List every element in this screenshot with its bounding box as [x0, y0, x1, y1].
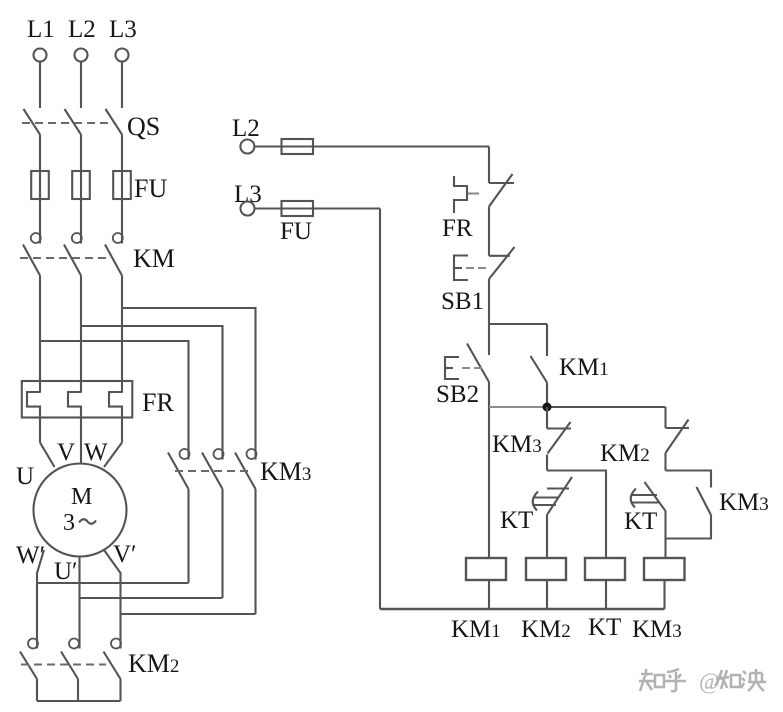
contact FR actuator — [454, 176, 467, 213]
wire QS to FU pole 3 — [121, 135, 123, 244]
svg-text:L2: L2 — [68, 16, 96, 43]
contactor KM2 main pole2 circle — [69, 639, 79, 649]
contactor KM pole 1 circle — [31, 233, 41, 243]
coil KT — [585, 558, 625, 580]
wire V' to KM3 pole3 — [121, 613, 256, 615]
terminal L3 control — [241, 202, 255, 216]
svg-text:KM2: KM2 — [128, 649, 179, 678]
wire branch to KM1 contact — [489, 323, 547, 325]
thermal relay FR heater element 1 — [27, 392, 40, 443]
coil KM2 — [526, 558, 566, 580]
wire KT2 to KM3 coil — [664, 511, 666, 558]
wire KM2 coil bottom — [546, 580, 548, 609]
contactor KM3 main pole1 blade — [168, 453, 189, 490]
switch QS linkage dashed line — [22, 122, 110, 124]
svg-text:L1: L1 — [27, 16, 55, 43]
wire KM3 pole3 down — [254, 489, 256, 614]
wire KT coil bottom — [605, 580, 607, 609]
contact KM3 NC blade — [548, 422, 571, 454]
terminal L3 — [116, 49, 129, 62]
svg-text:V′: V′ — [113, 541, 137, 568]
coil KM1 — [466, 558, 506, 580]
wire junction to KM3 parallel branch — [666, 471, 712, 488]
contact KT2 delayed blade — [645, 482, 666, 511]
wire KM1 coil bottom — [488, 580, 490, 609]
fuse FU control L3 — [282, 201, 314, 216]
contactor KM pole 2 blade — [64, 245, 81, 276]
svg-text:KT: KT — [500, 507, 533, 534]
contact KT delay symbol — [533, 492, 559, 511]
button SB2 actuator — [445, 357, 459, 379]
svg-text:KM3: KM3 — [719, 489, 769, 516]
contactor KM2 main pole3 circle — [111, 639, 121, 649]
svg-text:KM2: KM2 — [521, 616, 571, 643]
contactor KM pole 2 circle — [72, 233, 82, 243]
button SB2 actuator link dashes — [462, 367, 482, 369]
wire FR to SB1 — [488, 207, 490, 256]
svg-text:KM1: KM1 — [451, 616, 501, 643]
contactor KM pole 3 circle — [113, 233, 123, 243]
button SB1 actuator link dashes — [466, 267, 486, 269]
wire L2 down to QS — [80, 62, 82, 108]
contactor KM3 main pole2 circle — [214, 449, 224, 459]
svg-text:FR: FR — [142, 388, 174, 417]
contact KT2 delay symbol — [631, 489, 659, 508]
contactor KM3 main pole3 blade — [235, 453, 256, 490]
contactor KM3 main pole3 circle — [247, 449, 257, 459]
terminal L2 — [75, 49, 88, 62]
svg-text:KM1: KM1 — [559, 354, 609, 381]
contact KM2 NC stub — [664, 407, 666, 428]
wire KM pole2 down — [80, 276, 82, 393]
button SB2 stub top — [488, 324, 490, 355]
wire KM pole1 down — [39, 276, 41, 393]
wire KM3 coil bottom — [663, 580, 665, 609]
contact KT delayed NC tick — [547, 487, 569, 489]
svg-text:KT: KT — [624, 508, 657, 535]
svg-text:U′: U′ — [54, 558, 78, 585]
svg-text:L3: L3 — [109, 16, 137, 43]
wire KT contact to KM2 coil — [546, 514, 548, 558]
wire KM3 pole2 down — [221, 489, 223, 598]
svg-text:KT: KT — [588, 614, 621, 641]
contact KT delayed NC blade — [548, 477, 573, 514]
wire QS to FU pole 1 — [39, 135, 41, 244]
svg-text:L2: L2 — [232, 115, 260, 142]
wire KM pole3 down — [121, 276, 123, 393]
contact FR NC tick — [489, 182, 514, 184]
wire U lead-in flare — [40, 443, 55, 468]
contactor KM2 main linkage dashed line — [21, 663, 106, 665]
contactor KM linkage dashed line — [20, 257, 107, 259]
svg-text:KM3: KM3 — [632, 616, 682, 643]
wire L3 down to QS — [121, 62, 123, 108]
contact KM3 NC tick — [547, 427, 571, 429]
contactor KM3 main pole2 blade — [202, 453, 223, 490]
svg-text:W: W — [84, 439, 108, 466]
watermark zhihu — [639, 669, 766, 694]
wire branch phase1 to KM3 pole1 — [40, 341, 189, 460]
fuse FU pole 1 — [31, 171, 49, 199]
svg-text:KM3: KM3 — [260, 457, 311, 486]
svg-text:3: 3 — [63, 510, 75, 536]
terminal L1 — [34, 49, 47, 62]
contactor KM2 main pole2 blade — [61, 652, 78, 680]
wire L3 fuse to left rail — [379, 209, 381, 610]
contact FR NC stub top — [488, 147, 490, 184]
svg-text:V: V — [57, 439, 75, 466]
wire V lead-in — [80, 443, 82, 464]
svg-text:FR: FR — [442, 215, 473, 242]
wire KM3 parallel bottom — [666, 515, 712, 539]
wire node horizontal right — [543, 406, 666, 408]
svg-text:SB2: SB2 — [436, 381, 479, 408]
svg-text:FU: FU — [134, 174, 167, 203]
wire KM3 NC down — [546, 455, 548, 471]
contact KM1 stub top — [546, 324, 548, 356]
thermal relay FR heater element 2 — [68, 392, 81, 443]
wire node horizontal left (grey) — [489, 406, 543, 408]
contactor KM pole 3 blade — [105, 245, 122, 276]
wire L2 to fuse — [255, 145, 490, 147]
wire W lead-in flare — [104, 443, 122, 468]
svg-text:L3: L3 — [234, 181, 262, 208]
wire W' flare and down — [37, 550, 44, 649]
contactor KM pole 1 blade — [23, 245, 40, 276]
contact KM2 NC tick — [666, 427, 690, 429]
wire SB1 down — [488, 279, 490, 324]
svg-text:KM2: KM2 — [600, 440, 650, 467]
button SB1 NC tick — [489, 255, 510, 257]
svg-text:FU: FU — [280, 218, 312, 245]
wire branch phase3 to KM3 pole3 — [122, 308, 256, 460]
contact KM3 parallel blade — [697, 487, 712, 515]
contact KM3 NC stub — [546, 407, 548, 429]
wire QS to FU pole 2 — [80, 135, 82, 244]
wire branch phase2 to KM3 pole2 — [81, 326, 223, 460]
svg-text:M: M — [71, 484, 92, 510]
wire KM1 contact to node — [546, 383, 548, 408]
wire U' down — [78, 557, 80, 649]
button SB2 blade — [467, 344, 489, 383]
svg-text:W′: W′ — [16, 542, 45, 569]
node junction dot — [543, 403, 552, 412]
fuse FU control L2 — [282, 139, 314, 154]
terminal L2 control — [240, 140, 254, 154]
thermal relay FR heater element 3 — [109, 392, 122, 443]
fuse FU pole 2 — [72, 171, 90, 199]
wire U' to KM3 pole2 — [80, 597, 223, 599]
switch QS pole 1 blade — [24, 109, 41, 135]
contactor KM2 main pole1 circle — [28, 639, 38, 649]
svg-text:U: U — [16, 463, 34, 490]
contactor KM3 main linkage dashed line — [175, 470, 248, 472]
wire KM2 pole2 bottom — [77, 679, 79, 701]
wire V' flare and down — [104, 550, 121, 649]
motor M circle — [34, 464, 127, 557]
svg-text:KM: KM — [133, 244, 175, 273]
contact KM1 blade — [531, 356, 548, 383]
coil KM3 — [644, 558, 685, 580]
wire L1 down to QS — [39, 62, 41, 108]
svg-text:SB1: SB1 — [441, 288, 484, 315]
button SB1 NC blade — [489, 247, 515, 279]
switch QS pole 2 blade — [65, 109, 82, 135]
svg-text:KM3: KM3 — [492, 431, 542, 458]
wire KM2 pole3 bottom — [119, 679, 121, 701]
contact FR NC blade — [489, 174, 513, 207]
wire junction to KT coil column — [547, 471, 606, 559]
contactor KM2 main pole3 blade — [104, 652, 121, 680]
wire W' to KM3 pole1 — [37, 582, 189, 584]
wire KM2 bottom bus — [37, 700, 121, 702]
svg-text:QS: QS — [127, 112, 160, 141]
button SB1 actuator — [454, 256, 468, 281]
contact FR actuator link dash — [468, 192, 479, 194]
contact KM2 NC blade — [666, 420, 689, 454]
wire L3 to fuse — [255, 207, 381, 209]
wire bottom rail — [380, 608, 665, 610]
wire SB2 down to KM1 coil — [488, 382, 490, 558]
wire KM2 pole1 bottom — [36, 679, 38, 701]
fuse FU pole 3 — [113, 171, 131, 199]
wire KM2 NC down — [664, 453, 666, 471]
switch QS pole 3 blade — [106, 109, 123, 135]
wire KM3 pole1 down — [187, 489, 189, 583]
contactor KM3 main pole1 circle — [180, 449, 190, 459]
contactor KM2 main pole1 blade — [20, 652, 37, 680]
thermal relay FR heater box — [22, 381, 133, 418]
